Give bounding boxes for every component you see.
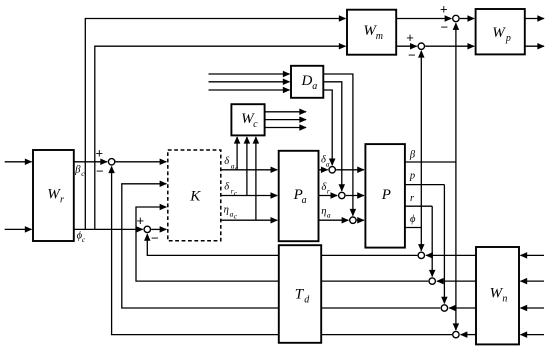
wire sum SM3 to P input 3 xyxy=(357,219,364,221)
wire r riser down to sum SB xyxy=(431,206,433,276)
svg-text:a: a xyxy=(327,211,331,220)
wire feedback row 2 (r) sum SB to riser to K input 3 xyxy=(136,207,428,281)
svg-text:−: − xyxy=(96,164,104,179)
svg-text:W: W xyxy=(492,25,506,41)
svg-text:−: − xyxy=(151,231,159,246)
wire W_n output 3 into sum SC xyxy=(449,307,476,309)
sum junction SM1 (aileron disturbance) xyxy=(329,167,335,173)
wire branch phi_c riser to W_m input 1 xyxy=(85,19,345,230)
block W_c xyxy=(231,104,264,135)
sum junction SB (r + noise) xyxy=(429,278,435,284)
wire K output 2 to P_a input 2 xyxy=(221,195,277,197)
wire W_m output 2 to sum S4 xyxy=(396,45,417,47)
wire sum S4 to W_p input 2 xyxy=(425,45,474,47)
label eta_a_c xyxy=(224,205,238,221)
sum junction SA (phi + noise) xyxy=(418,252,424,258)
wire beta_c: W_r to sum S1 xyxy=(74,161,107,163)
wire W_c output 2 xyxy=(265,119,306,121)
svg-text:+: + xyxy=(96,146,104,161)
wire W_n noise input 2 xyxy=(521,280,545,282)
block W_m xyxy=(347,10,396,55)
svg-text:p: p xyxy=(505,33,511,44)
wire W_p output 1 xyxy=(525,18,544,20)
svg-text:c: c xyxy=(253,119,258,130)
wire P output r rung to riser xyxy=(405,205,432,207)
wire beta riser: sum S3 down to sum SD xyxy=(455,23,457,330)
wire phi riser: sum S4 down to sum SA xyxy=(420,51,422,251)
wire D_a input 1 xyxy=(209,73,290,75)
wire p riser down to sum SC xyxy=(443,185,445,304)
wire D_a input 2 xyxy=(209,81,290,83)
wire P_a output 1 to sum SM1 xyxy=(319,169,328,171)
label phi_c xyxy=(77,230,86,244)
wire branch phi_c riser to W_m input 2 xyxy=(95,46,346,229)
label delta_r_c xyxy=(224,181,238,197)
wire phi_c: W_r to sum S2 xyxy=(74,228,143,230)
svg-text:a: a xyxy=(302,195,307,206)
sum junction SD (beta + noise) xyxy=(453,331,459,337)
wire W_c output 3 xyxy=(265,127,306,129)
wire W_n noise input 4 xyxy=(521,334,545,336)
svg-text:D: D xyxy=(301,73,313,89)
wire sum SM1 to P input 1 xyxy=(336,169,364,171)
svg-text:+: + xyxy=(440,2,448,17)
svg-text:r: r xyxy=(60,195,64,206)
svg-text:r: r xyxy=(327,187,330,196)
wire P_a output 2 to sum SM2 xyxy=(319,195,338,197)
wire D_a output 2 down to sum SM2 xyxy=(323,82,342,191)
wire tap row1 up to W_c input 1 xyxy=(236,137,238,170)
sum junction S2 (phi_c - phi) xyxy=(144,226,150,232)
label beta_c xyxy=(74,164,85,178)
wire sum S3 to W_p input 1 xyxy=(460,18,474,20)
svg-text:K: K xyxy=(189,189,201,205)
wire feedback row 1 (phi) sum SA to riser up to sum S2 xyxy=(147,234,417,255)
svg-text:n: n xyxy=(502,294,507,305)
wire P output beta rung to riser xyxy=(405,161,456,163)
sum junction S4 (phi_m - phi) xyxy=(418,43,424,49)
sum junction SC (p + noise) xyxy=(441,305,447,311)
wire tap row3 up to W_c input 3 xyxy=(255,137,257,220)
wire D_a input 3 xyxy=(209,89,290,91)
wire D_a output 1 down to sum SM3 xyxy=(323,74,353,216)
wire W_c output 1 xyxy=(265,111,306,113)
sum junction SM2 (rudder disturbance) xyxy=(339,192,345,198)
block P_a xyxy=(279,151,319,241)
wire W_n output 4 into sum SD xyxy=(461,334,476,336)
block D_a xyxy=(291,66,323,98)
svg-text:P: P xyxy=(381,187,391,203)
label delta_a xyxy=(321,154,330,168)
wire feedback row 4 (beta) sum SD to riser up to sum S1 xyxy=(112,167,452,335)
wire K output 1 to P_a input 1 xyxy=(221,169,277,171)
label delta_r xyxy=(321,182,330,196)
controller K (dashed block) xyxy=(168,150,221,241)
wire tap row2 up to W_c input 2 xyxy=(246,137,248,196)
svg-text:η: η xyxy=(224,205,229,216)
wire beta_c: sum S1 to K input 1 xyxy=(116,161,167,163)
wire K output 3 to P_a input 3 xyxy=(221,219,277,221)
wire W_n noise input 1 xyxy=(521,254,545,256)
block P xyxy=(365,144,405,248)
svg-text:−: − xyxy=(408,48,416,63)
svg-text:ϕ: ϕ xyxy=(410,214,416,225)
svg-text:m: m xyxy=(376,31,383,42)
wire feedback row 3 (p) sum SC to riser to K input 2 xyxy=(122,184,440,308)
wire P output phi rung to riser xyxy=(405,227,421,229)
block W_p xyxy=(476,9,525,54)
wire P output p rung to riser xyxy=(405,184,445,186)
svg-text:+: + xyxy=(406,30,414,45)
svg-text:β: β xyxy=(409,150,416,161)
label eta_a xyxy=(321,206,331,220)
sum junction S3 (top right, beta_m - beta) xyxy=(453,15,459,21)
svg-text:η: η xyxy=(321,206,326,217)
wire P_a output 3 to sum SM3 xyxy=(319,219,349,221)
sum junction S1 (beta_c - beta) xyxy=(108,159,114,165)
wire W_n output 1 into sum SA xyxy=(426,254,476,256)
block W_r xyxy=(33,150,74,241)
wire sum SM2 to P input 2 xyxy=(346,195,364,197)
wire W_r input 1 xyxy=(5,161,32,163)
wire W_p output 2 xyxy=(525,45,544,47)
svg-text:a: a xyxy=(312,81,317,92)
label delta_a_c xyxy=(224,156,238,172)
wire D_a output 3 down to sum SM1 xyxy=(323,90,332,165)
wire W_n noise input 3 xyxy=(521,307,545,309)
svg-text:+: + xyxy=(137,213,145,228)
block W_n xyxy=(476,247,519,344)
svg-text:p: p xyxy=(409,170,415,181)
svg-text:−: − xyxy=(441,20,449,35)
svg-text:a: a xyxy=(326,159,330,168)
wire W_r input 2 xyxy=(5,228,32,230)
wire phi_c: sum S2 to K input 4 xyxy=(151,228,166,230)
sum junction SM3 (eta disturbance) xyxy=(350,217,356,223)
block T_d xyxy=(279,245,321,343)
wire W_m output 1 to sum S3 xyxy=(396,18,451,20)
wire W_n output 2 into sum SB xyxy=(437,280,476,282)
